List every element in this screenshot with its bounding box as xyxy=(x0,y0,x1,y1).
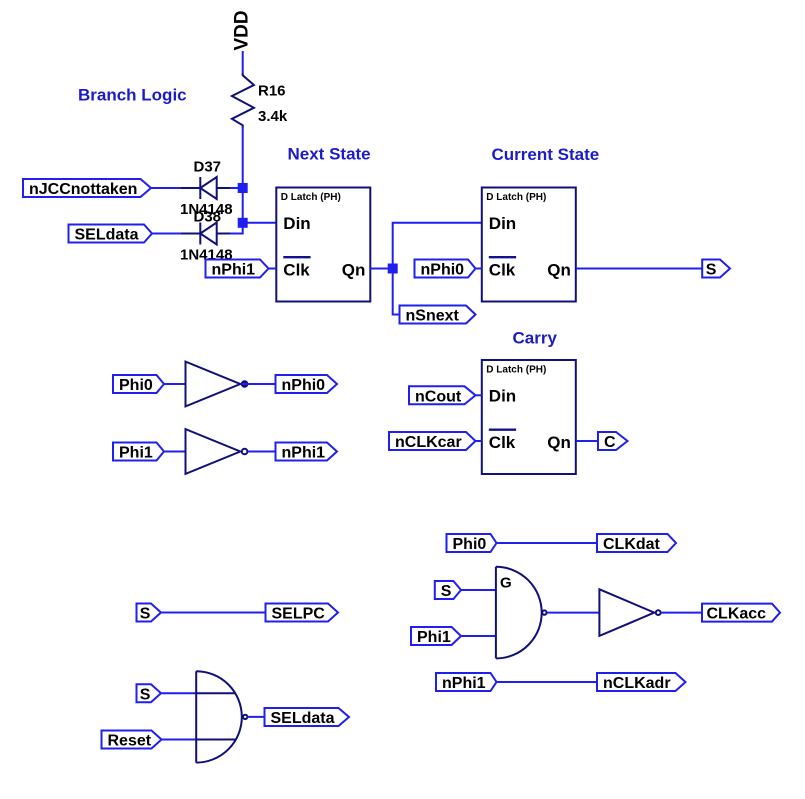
wire nPhi0 to U2 Clk xyxy=(476,268,482,270)
net flag S to NAND A4 xyxy=(435,581,461,600)
svg-text:Din: Din xyxy=(489,386,516,405)
svg-text:Reset: Reset xyxy=(108,733,152,750)
svg-text:R16: R16 xyxy=(258,83,286,100)
wire node to U1 Din xyxy=(243,222,277,224)
svg-text:3.4k: 3.4k xyxy=(258,108,288,125)
svg-text:nPhi0: nPhi0 xyxy=(282,377,326,394)
svg-text:nSnext: nSnext xyxy=(406,308,460,325)
wire A5 to CLKacc xyxy=(661,612,702,614)
net flag nJCCnottaken xyxy=(23,179,151,198)
svg-text:S: S xyxy=(140,606,151,623)
wire A3 to SELdata xyxy=(247,716,264,718)
svg-text:Qn: Qn xyxy=(342,261,366,280)
svg-text:Din: Din xyxy=(489,214,516,233)
svg-text:D37: D37 xyxy=(194,159,222,176)
svg-text:Phi0: Phi0 xyxy=(453,536,487,553)
net flag nCout xyxy=(409,386,476,405)
svg-text:Current State: Current State xyxy=(492,145,600,164)
inverter A2 xyxy=(186,429,248,474)
svg-text:nCLKcar: nCLKcar xyxy=(395,434,462,451)
svg-text:S: S xyxy=(441,583,452,600)
wire A1 to nPhi0 xyxy=(242,383,276,385)
svg-text:Clk: Clk xyxy=(283,261,310,280)
D latch U1 (Next State) xyxy=(276,188,370,302)
wire Phi0 to A1 xyxy=(164,383,186,385)
svg-text:Phi1: Phi1 xyxy=(119,445,153,462)
junction node U1 Qn xyxy=(388,264,398,274)
wire node up to U2 Din xyxy=(393,223,482,269)
wire A2 to nPhi1 xyxy=(248,451,276,453)
svg-text:nPhi1: nPhi1 xyxy=(282,445,326,462)
svg-text:nPhi1: nPhi1 xyxy=(212,262,256,279)
svg-text:Clk: Clk xyxy=(489,433,516,452)
wire Reset to A3 xyxy=(162,739,197,741)
svg-text:S: S xyxy=(140,686,151,703)
wire VDD to R16 xyxy=(242,51,244,75)
wire A4 to inverter A5 xyxy=(547,612,600,614)
D latch U2 (Current State) xyxy=(482,188,576,302)
svg-text:SELPC: SELPC xyxy=(272,606,326,623)
net flag Phi0 to inverter A1 xyxy=(113,375,164,394)
wire U2 Qn to S xyxy=(576,268,702,270)
svg-text:D Latch (PH): D Latch (PH) xyxy=(486,365,546,376)
svg-text:Phi1: Phi1 xyxy=(417,629,451,646)
inverter A5 xyxy=(599,589,660,636)
net flag CLKdat output xyxy=(597,534,676,553)
svg-text:Next State: Next State xyxy=(288,145,371,164)
wire D38 to node xyxy=(230,223,243,234)
wire nCLKcar to U3 Clk xyxy=(476,440,482,442)
net flag S to SELPC xyxy=(137,604,162,623)
svg-text:D Latch (PH): D Latch (PH) xyxy=(486,192,546,203)
net flag SELPC output xyxy=(266,604,339,623)
svg-text:SELdata: SELdata xyxy=(271,710,335,727)
svg-text:S: S xyxy=(706,262,717,279)
svg-text:CLKdat: CLKdat xyxy=(603,536,661,553)
net flag nPhi0 output of A1 xyxy=(276,375,338,394)
net flag nPhi1 to nCLKadr xyxy=(436,673,497,692)
wire Phi1 to A4 xyxy=(461,635,496,637)
svg-text:VDD: VDD xyxy=(232,10,253,50)
wire nPhi1 to U1 Clk xyxy=(269,268,277,270)
svg-text:nPhi1: nPhi1 xyxy=(442,675,486,692)
wire Phi0 to CLKdat xyxy=(497,542,598,544)
wire S to A4 xyxy=(461,589,496,591)
net flag Reset xyxy=(102,731,162,750)
wire S to A3 xyxy=(161,692,196,694)
svg-text:Qn: Qn xyxy=(547,433,571,452)
net flag S to NAND A3 xyxy=(137,684,162,703)
svg-text:Qn: Qn xyxy=(547,261,571,280)
svg-text:Clk: Clk xyxy=(489,261,516,280)
wire U1 Qn to node xyxy=(370,268,392,270)
junction node Din1 xyxy=(238,218,248,228)
net flag nPhi1 output of A2 xyxy=(276,443,338,462)
svg-text:CLKacc: CLKacc xyxy=(707,606,767,623)
svg-text:Branch Logic: Branch Logic xyxy=(78,86,187,105)
wire nPhi1 to nCLKadr xyxy=(497,681,598,683)
svg-text:SELdata: SELdata xyxy=(75,227,139,244)
net flag C output of U3 xyxy=(598,432,628,451)
wire Phi1 to A2 xyxy=(164,451,186,453)
wire nJCCnottaken to D37 xyxy=(151,187,182,189)
net flag SELdata input xyxy=(69,225,153,244)
net flag nCLKadr output xyxy=(597,673,686,692)
resistor R16 xyxy=(232,74,254,128)
wire SELdata to D38 xyxy=(152,233,182,235)
svg-text:nCout: nCout xyxy=(415,388,462,405)
svg-text:Din: Din xyxy=(283,214,310,233)
net flag nCLKcar xyxy=(389,432,476,451)
net flag nPhi1 to U1 Clk xyxy=(206,260,269,279)
NAND gate A4 xyxy=(496,567,547,659)
svg-text:G: G xyxy=(500,575,512,592)
svg-text:Carry: Carry xyxy=(513,329,558,348)
net flag Phi1 to inverter A2 xyxy=(113,443,164,462)
svg-text:nJCCnottaken: nJCCnottaken xyxy=(29,181,137,198)
net flag nPhi0 to U2 Clk xyxy=(415,260,476,279)
wire U3 Qn to C xyxy=(576,440,598,442)
wire R16 to node column xyxy=(242,127,244,223)
wire S to SELPC xyxy=(161,612,266,614)
wire D37 to node xyxy=(230,187,243,189)
net flag SELdata output of A3 xyxy=(265,708,350,727)
svg-text:D Latch (PH): D Latch (PH) xyxy=(281,192,341,203)
net flag CLKacc output xyxy=(702,604,780,623)
svg-text:Phi0: Phi0 xyxy=(119,377,153,394)
junction node R16/D37 xyxy=(238,183,248,193)
diode D37 xyxy=(181,177,231,199)
svg-text:C: C xyxy=(604,434,616,451)
wire nCout to U3 Din xyxy=(476,394,482,396)
net flag Phi1 to NAND A4 xyxy=(411,627,461,646)
net flag Phi0 to CLKdat xyxy=(447,534,497,553)
diode D38 xyxy=(181,223,231,245)
net flag nSnext xyxy=(400,306,476,325)
svg-text:nPhi0: nPhi0 xyxy=(421,262,465,279)
D latch U3 (Carry) xyxy=(482,360,576,474)
svg-text:nCLKadr: nCLKadr xyxy=(603,675,671,692)
NAND gate A3 xyxy=(196,671,247,762)
inverter A1 xyxy=(186,362,248,407)
net flag S output of U2 xyxy=(702,260,730,279)
wire node down to nSnext xyxy=(393,269,400,315)
